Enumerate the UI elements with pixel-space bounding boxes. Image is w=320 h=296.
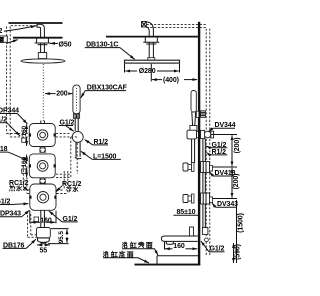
svg-text:(590): (590) [235,244,242,260]
svg-text:160: 160 [21,125,28,136]
svg-text:(400): (400) [163,77,179,84]
svg-text:160: 160 [40,217,52,224]
svg-text:(1500): (1500) [237,213,244,233]
svg-text:160: 160 [21,156,28,167]
svg-text:200: 200 [56,91,68,98]
svg-text:Ø280: Ø280 [139,68,156,75]
svg-text:55: 55 [40,248,48,255]
svg-text:RC1/2: RC1/2 [62,181,82,188]
svg-text:2: 2 [0,28,3,35]
svg-text:(200): (200) [233,174,240,190]
svg-text:160: 160 [173,243,185,250]
svg-text:(200): (200) [234,138,241,154]
svg-text:Ø50: Ø50 [59,41,72,48]
svg-text:95.5: 95.5 [58,231,65,244]
